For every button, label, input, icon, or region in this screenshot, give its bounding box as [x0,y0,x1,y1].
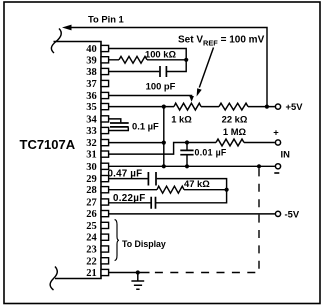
wire pin 39 [109,59,187,61]
wire pin 40 to osc node [109,49,187,72]
svg-text:26: 26 [86,209,97,220]
svg-text:40: 40 [86,44,97,55]
pin 38 stub [101,68,109,74]
svg-text:100 pF: 100 pF [146,81,176,92]
brace to display [115,220,119,261]
terminal +5V [275,104,280,109]
Set VREF annotation arrow [199,48,213,88]
wire pin 32 to common [109,142,164,144]
pin 36 stub [101,92,109,98]
svg-text:0.1 µF: 0.1 µF [132,121,159,132]
node integrator junction [225,188,229,192]
pin 34 stub [101,116,109,122]
terminal IN- [275,164,280,169]
ground [131,273,144,290]
svg-text:0.01 µF: 0.01 µF [195,147,227,157]
pin 37 stub [101,80,109,86]
node input filter junction [185,140,189,144]
svg-text:0.47 µF: 0.47 µF [108,169,143,180]
svg-text:38: 38 [86,67,97,78]
svg-text:TC7107A: TC7107A [20,137,76,152]
pin 32 stub [101,140,109,146]
capacitor C4 0.47 uF [148,172,156,186]
svg-text:33: 33 [86,126,97,137]
pin 22 stub [101,258,109,264]
svg-text:29: 29 [86,174,97,185]
svg-text:22: 22 [86,256,97,267]
pin 27 stub [101,199,109,205]
pin 23 stub [101,246,109,252]
node ground junction [136,270,140,274]
wire node down to 0.22uF [156,190,227,203]
wire 22k to +5V terminal [248,106,275,108]
svg-text:31: 31 [86,150,97,161]
pin 24 stub [101,234,109,240]
node pot left junction [162,105,166,109]
wire pin 34 [109,119,121,123]
To Pin 1 arrow line [71,28,268,107]
pin 29 stub [101,176,109,182]
svg-text:32: 32 [86,138,97,149]
node common mid junction [162,141,166,145]
svg-text:23: 23 [86,245,97,256]
svg-text:IN: IN [281,149,291,160]
svg-text:47 kΩ: 47 kΩ [184,178,210,189]
potentiometer R2 1 kOhm [174,103,201,110]
IC left break squiggle top [51,29,61,54]
dashed return wire [150,168,259,272]
svg-text:25: 25 [86,221,97,232]
pin 25 stub [101,222,109,228]
pin 26 stub [101,211,109,217]
svg-text:-5V: -5V [285,208,300,219]
capacitor C5 0.22 uF [151,197,155,209]
pin 30 stub [101,163,109,169]
svg-text:+5V: +5V [286,101,304,112]
wire 1M to IN+ terminal [244,142,275,144]
wiper arrowhead [189,96,194,102]
capacitor C2 0.1 uF [110,123,129,127]
svg-text:37: 37 [86,79,97,90]
terminal IN+ [275,140,280,145]
pin 39 stub [101,57,109,63]
pin 21 stub [101,269,109,275]
pin 40 stub [101,45,109,51]
wire 0.47uF to 47k node [157,179,227,190]
svg-text:22 kΩ: 22 kΩ [222,114,248,125]
wire 47k to node [184,189,227,191]
wire pin 26 to -5V [109,213,275,215]
svg-text:To Display: To Display [122,239,166,249]
wire pin 31 to input [109,143,217,155]
wire pin 28 [109,189,158,191]
wire pot to 22k [201,106,219,108]
capacitor C1 100 pF [160,66,166,77]
IC left break squiggle bottom [50,267,57,291]
svg-text:27: 27 [86,198,97,209]
svg-text:0.22µF: 0.22µF [113,193,146,204]
svg-text:30: 30 [86,162,97,173]
resistor R3 22 kOhm [219,103,248,110]
svg-text:28: 28 [86,185,97,196]
wire pin 38 [109,71,160,73]
node common bottom junction [162,164,166,168]
wire common vertical bus [163,107,165,167]
terminal -5V [275,211,280,216]
pin 28 stub [101,187,109,193]
IC U1 TC7107A body outline [54,42,102,279]
wire pin 27 to 0.22uF [109,202,151,204]
svg-text:35: 35 [86,102,97,113]
resistor R4 1 MOhm [216,139,244,146]
svg-text:36: 36 [86,91,97,102]
svg-text:39: 39 [86,55,97,66]
svg-text:1 MΩ: 1 MΩ [223,126,247,137]
To Pin 1 arrowhead [62,25,72,31]
pin 35 stub [101,104,109,110]
svg-text:34: 34 [86,114,97,125]
wire pin 35 to pot [109,106,175,108]
wire pin 30 IN- line [109,165,275,167]
node cap bottom junction [185,164,189,168]
wire pin 21 ground line [109,272,150,274]
minus sign [274,172,279,174]
capacitor C3 0.01 uF [186,143,188,151]
wire pin 36 to pot wiper [109,96,192,97]
svg-text:+: + [273,126,279,137]
svg-text:21: 21 [86,268,97,279]
resistor R1 100 kOhm [119,56,147,63]
svg-text:100 kΩ: 100 kΩ [145,49,176,60]
svg-text:To Pin 1: To Pin 1 [88,14,124,25]
svg-text:24: 24 [86,233,97,244]
pin 31 stub [101,151,109,157]
wire pin 33 [109,127,129,130]
node osc junction [184,58,188,62]
wire pin 29 to 0.47uF [109,178,148,180]
svg-text:1 kΩ: 1 kΩ [171,114,192,125]
pin 33 stub [101,127,109,133]
resistor R5 47 kOhm [157,186,184,193]
node dashed branch junction [257,164,261,168]
node +5V junction [265,105,269,109]
